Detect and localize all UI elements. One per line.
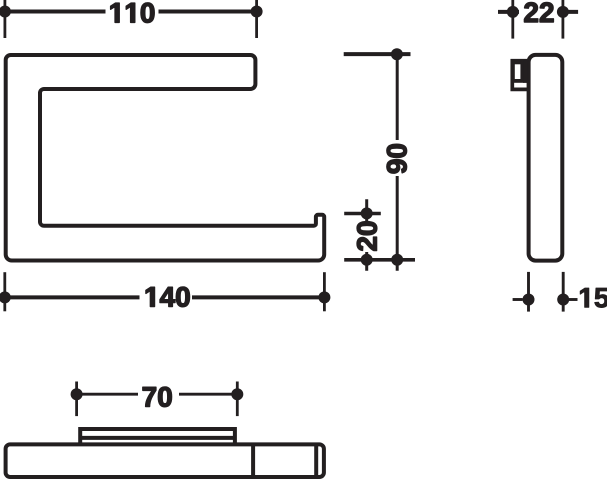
bottom view: mounting plate: [80, 429, 235, 445]
dim 140: label text: [146, 287, 190, 307]
dim 15: left outside segment: [513, 298, 523, 301]
dim 110: left dot: [0, 6, 11, 18]
dim 70: left extension line: [75, 382, 78, 417]
dim 90: bottom dot: [391, 254, 403, 266]
dim 20: label text: [357, 222, 377, 251]
dim 20: dimension line: [365, 199, 368, 271]
dim 110: left extension line: [4, 0, 7, 38]
dim 20: top dot: [361, 207, 373, 219]
dim 110: right extension line: [255, 0, 258, 38]
dim 70: label text: [143, 387, 172, 407]
dim 70: right dot: [231, 388, 243, 400]
dim 140: dimension line: [5, 295, 325, 299]
shared bottom extension line for 90 and 20: [344, 258, 415, 262]
dim 70: label background: [138, 381, 179, 408]
dim 140: left extension line: [3, 272, 6, 311]
dim 90: dimension line: [396, 54, 399, 271]
dim 140: right extension line: [323, 272, 326, 311]
dim 110: label background: [106, 0, 159, 26]
bottom view: base bar: [6, 444, 324, 477]
dim 110: label text: [111, 3, 155, 23]
dim 22: dimension line: [498, 10, 578, 14]
dim 15: right dot: [557, 294, 569, 306]
side view: wall bracket inner slot: [513, 62, 522, 81]
dim 20: bottom dot: [361, 254, 373, 266]
dim 22: right extension line: [562, 0, 565, 39]
side view: bracket-to-body joint fill: [523, 61, 527, 83]
bottom view: plate inner line: [80, 436, 235, 440]
dim 110: dimension line: [5, 10, 257, 14]
dim 20: label background: [354, 221, 380, 252]
dim 140: left dot: [0, 291, 11, 303]
bottom view: divider line 2: [314, 444, 318, 477]
dim 110: right dot: [251, 6, 263, 18]
dim 22: left extension line: [511, 0, 514, 39]
dim 70: dimension line: [77, 393, 238, 396]
dim 90: label text: [387, 144, 407, 173]
dim 15: right extension line: [562, 272, 565, 312]
bottom view: divider line 1: [251, 444, 255, 477]
dim 15: right outside segment: [568, 298, 577, 301]
dim 70: right extension line: [236, 382, 239, 417]
dim 22: right dot: [557, 6, 569, 18]
dim 90: label background: [384, 140, 410, 176]
front view: holder outline: [6, 55, 325, 261]
dim 22: label background: [519, 0, 558, 26]
dim 22: label text: [524, 2, 553, 22]
dim 140: label background: [140, 284, 193, 311]
dim 15: label text: [580, 288, 607, 308]
side view: wall bracket outer: [512, 61, 528, 90]
dim 90: top extension line: [344, 52, 411, 56]
dim 90: top dot: [391, 48, 403, 60]
dim 15: left dot: [523, 294, 535, 306]
dim 140: right dot: [318, 291, 330, 303]
dim 15: left extension line: [527, 272, 530, 312]
dim 22: left dot: [507, 6, 519, 18]
side view: body: [529, 55, 563, 261]
dim 20: top extension line: [344, 212, 381, 216]
dim 70: left dot: [71, 388, 83, 400]
